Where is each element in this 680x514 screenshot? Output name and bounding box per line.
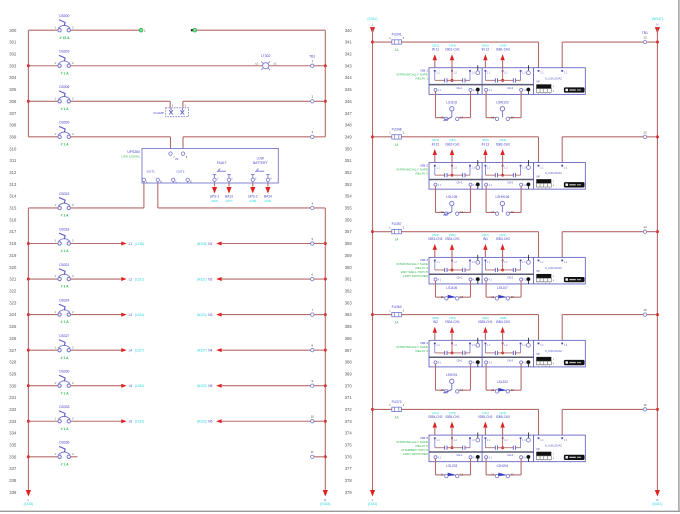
off-page arrow ISB4-CH1 into ISB-4 <box>445 316 460 340</box>
svg-text:(L341): (L341) <box>368 502 378 506</box>
svg-text:CB330: CB330 <box>59 370 69 374</box>
ISB-3 power section internals <box>536 260 584 286</box>
svg-text:# 1 A: # 1 A <box>61 427 70 431</box>
svg-text:CB315: CB315 <box>59 192 69 196</box>
wire row 303 CB303 to lamp <box>70 65 262 67</box>
svg-text:366: 366 <box>345 336 353 341</box>
terminal TB1-6 <box>311 272 314 280</box>
off-page arrow L4 <box>121 348 144 352</box>
svg-text:N_100/120VAC: N_100/120VAC <box>545 77 562 80</box>
svg-text:368: 368 <box>345 360 353 365</box>
wire row 324 terminal to neutral bus <box>314 314 325 316</box>
terminal TB1-1 <box>309 55 315 68</box>
svg-text:325: 325 <box>9 324 17 329</box>
off-page arrow N5 <box>197 384 222 388</box>
node junction neutral bus row 330 <box>324 384 327 387</box>
svg-text:304: 304 <box>9 75 17 80</box>
ISB-5 channel 1 output pins 4.1 4.2 <box>434 453 480 462</box>
circuit breaker CB336 <box>28 441 74 467</box>
svg-text:N1: N1 <box>208 242 212 246</box>
node junction neutral bus row 306 <box>324 100 327 103</box>
svg-text:12: 12 <box>511 473 514 477</box>
svg-text:FU357: FU357 <box>392 222 402 226</box>
terminal TB1-4 <box>311 201 314 209</box>
ISB-4 channel 2 barrier internals <box>485 338 531 355</box>
wire row 318 terminal to neutral bus <box>314 243 325 245</box>
ISB-1 channel 1 barrier internals <box>434 65 480 82</box>
svg-text:376: 376 <box>345 454 353 459</box>
net label top of right neutral bus <box>652 17 663 26</box>
wire row 315 UPS OUT2 to terminal 4 <box>158 207 311 209</box>
svg-text:332: 332 <box>9 407 17 412</box>
limit switch LSH204 <box>486 459 521 478</box>
off-page arrow L3 <box>121 313 144 317</box>
off-page arrow BA13 <box>225 183 233 203</box>
label ISB-2 <box>396 163 428 175</box>
svg-text:13: 13 <box>441 210 444 214</box>
svg-text:369: 369 <box>345 371 353 376</box>
node junction neutral bus row 364 <box>656 313 659 316</box>
off-page arrow IN 12 into ISB-1 <box>482 43 490 67</box>
svg-text:CB309: CB309 <box>59 121 69 125</box>
limit switch LS1102 <box>436 91 471 120</box>
svg-text:362: 362 <box>345 289 353 294</box>
ISB-3 channel 2 barrier internals <box>485 255 531 272</box>
off-page arrow ISB5-CH2 into ISB-5 <box>428 411 443 435</box>
svg-text:LS1102: LS1102 <box>446 100 457 104</box>
off-page arrow IN 11 into ISB-1 <box>432 43 440 67</box>
circuit breaker CB309 <box>28 121 74 147</box>
svg-text:317: 317 <box>9 229 17 234</box>
wire row 327 CB to off-page arrow L4 <box>70 349 121 351</box>
svg-text:12: 12 <box>643 36 647 40</box>
svg-text:LT302: LT302 <box>261 54 270 58</box>
wire row 321 CB to off-page arrow L2 <box>70 278 121 280</box>
svg-text:373: 373 <box>345 419 353 424</box>
svg-text:FU341: FU341 <box>392 33 402 37</box>
svg-text:CB303: CB303 <box>59 50 69 54</box>
svg-text:LSW103: LSW103 <box>496 100 508 104</box>
circuit breaker CB300 <box>28 14 74 40</box>
svg-text:355: 355 <box>345 206 353 211</box>
svg-text:L1: L1 <box>129 242 133 246</box>
svg-text:OUT2: OUT2 <box>176 170 184 174</box>
terminal TB1-2 <box>311 95 314 103</box>
off-page arrow IN 13 into ISB-2 <box>482 138 490 162</box>
off-page arrow L6 <box>121 419 144 423</box>
svg-text:324: 324 <box>9 312 17 317</box>
off-page arrow UPS-1 <box>210 183 220 203</box>
svg-text:316: 316 <box>9 217 17 222</box>
svg-text:348: 348 <box>345 123 353 128</box>
svg-text:349: 349 <box>345 134 353 139</box>
wire row 336 terminal to neutral bus <box>314 456 325 458</box>
svg-text:329: 329 <box>9 371 17 376</box>
off-page arrow L2 <box>121 277 144 281</box>
terminal TB1-11 <box>311 450 315 458</box>
svg-text:MP: MP <box>536 448 540 451</box>
terminal TB1-8 <box>311 344 314 352</box>
svg-text:374: 374 <box>345 431 353 436</box>
terminal TB1-3 <box>311 130 314 138</box>
svg-text:370: 370 <box>345 383 353 388</box>
fuse FU341 <box>373 33 405 52</box>
svg-text:# 1 A: # 1 A <box>61 285 70 289</box>
svg-text:301: 301 <box>9 40 17 45</box>
svg-text:CH-2: CH-2 <box>507 453 514 457</box>
off-page arrow N4 <box>197 348 222 352</box>
svg-text:LIMIT SWITCHES: LIMIT SWITCHES <box>403 452 428 456</box>
wire row 309 terminal to neutral bus <box>314 136 325 138</box>
svg-text:CB306: CB306 <box>59 85 69 89</box>
wire ISB1 pin 1.2 to terminal 12 <box>561 42 563 68</box>
svg-text:CH-1: CH-1 <box>456 453 463 457</box>
limit switch LS1106 <box>436 281 471 300</box>
svg-text:TB1: TB1 <box>309 55 315 59</box>
svg-text:# 1 A: # 1 A <box>61 142 70 146</box>
svg-text:N_100/120VAC: N_100/120VAC <box>545 267 562 270</box>
svg-text:N6: N6 <box>208 420 212 424</box>
svg-text:FU348: FU348 <box>392 127 402 131</box>
svg-text:310: 310 <box>9 146 17 151</box>
svg-text:11: 11 <box>311 450 314 454</box>
off-page arrow N1 <box>197 242 222 246</box>
fuse FU372 <box>373 400 405 419</box>
svg-text:N5: N5 <box>208 384 212 388</box>
svg-text:10: 10 <box>311 415 315 419</box>
limit switch LSL105 <box>436 186 471 215</box>
svg-text:350: 350 <box>345 146 353 151</box>
off-page arrow top of right neutral bus <box>655 27 660 33</box>
svg-text:(346): (346) <box>211 199 218 203</box>
wire terminal 15 to neutral bus <box>647 314 658 316</box>
svg-text:CB300: CB300 <box>59 14 69 18</box>
off-page arrow N3 <box>197 313 222 317</box>
svg-text:364: 364 <box>345 312 353 317</box>
svg-text:345: 345 <box>345 87 353 92</box>
off-page arrow UPS-2 <box>248 183 258 203</box>
svg-text:375: 375 <box>345 443 353 448</box>
limit switch LSL202 <box>486 364 521 393</box>
svg-text:LSL203: LSL203 <box>446 464 457 468</box>
svg-text:IN2: IN2 <box>433 320 438 324</box>
wire left-half neutral bus segment rows 300-309 <box>324 30 326 137</box>
svg-text:N_100/120VAC: N_100/120VAC <box>545 350 562 353</box>
wire fuse FU348 to ISB2 pin 1.1 <box>401 136 538 138</box>
label ISB-1 <box>396 69 428 81</box>
svg-text:352: 352 <box>345 170 353 175</box>
svg-text:LSHH106: LSHH106 <box>495 195 509 199</box>
svg-text:353: 353 <box>345 182 353 187</box>
svg-text:CB324: CB324 <box>59 298 69 302</box>
node junction neutral bus row 327 <box>324 349 327 352</box>
svg-text:IN 12: IN 12 <box>432 142 440 146</box>
svg-text:ISB1-CH2: ISB1-CH2 <box>496 48 511 52</box>
svg-text:# 1 A: # 1 A <box>61 249 70 253</box>
svg-text:N: N <box>656 23 658 27</box>
svg-text:(N315): (N315) <box>320 502 330 506</box>
ISB-2 channel 1 output pins 4.1 4.2 <box>434 181 480 190</box>
svg-text:335: 335 <box>9 443 17 448</box>
svg-text:361: 361 <box>345 277 353 282</box>
svg-text:CH-1: CH-1 <box>456 86 463 90</box>
wire fuse FU357 to ISB3 pin 1.1 <box>401 231 538 233</box>
svg-text:379: 379 <box>345 490 353 495</box>
svg-text:343: 343 <box>345 63 353 68</box>
terminal TB1-12 <box>642 31 648 44</box>
node junction neutral bus row 333 <box>324 420 327 423</box>
ISB-5 channel 2 output pins 4.1 4.2 <box>485 453 531 462</box>
svg-text:(120V): (120V) <box>368 17 378 21</box>
wire row 330 terminal to neutral bus <box>314 385 325 387</box>
off-page arrow bottom of right hot bus <box>370 490 375 497</box>
svg-text:N4: N4 <box>208 348 212 352</box>
terminal TB1-13 <box>643 130 647 138</box>
svg-text:L6: L6 <box>129 420 133 424</box>
wire row 324 CB to off-page arrow L3 <box>70 314 121 316</box>
svg-text:331: 331 <box>9 395 17 400</box>
svg-text:(L333): (L333) <box>135 420 144 424</box>
ISB-4 channel 1 output pins 4.1 4.2 <box>434 358 480 367</box>
node junction left bus row 336 <box>27 455 30 458</box>
svg-text:313: 313 <box>9 182 17 187</box>
net label below right hot bus <box>368 498 378 506</box>
svg-text:# 1 A: # 1 A <box>61 391 70 395</box>
svg-text:CB318: CB318 <box>59 227 69 231</box>
wire row 333 arrow N6 to terminal 10 <box>222 420 311 422</box>
svg-text:# 1 A: # 1 A <box>61 214 70 218</box>
svg-text:ISB3-CH2: ISB3-CH2 <box>428 237 443 241</box>
svg-text:ISB5-CH1: ISB5-CH1 <box>478 320 493 324</box>
svg-text:BATTERY: BATTERY <box>253 161 268 165</box>
svg-text:308: 308 <box>9 123 17 128</box>
node junction neutral bus row 321 <box>324 278 327 281</box>
svg-text:323: 323 <box>9 300 17 305</box>
circuit breaker CB324 <box>28 298 74 324</box>
off-page arrow ISB4-CH2 into ISB-4 <box>496 316 511 340</box>
ISB-1 channel 1 output pins 4.1 4.2 <box>434 86 480 95</box>
circuit breaker CB303 <box>28 50 74 76</box>
svg-text:337: 337 <box>9 466 17 471</box>
svg-text:330: 330 <box>9 383 17 388</box>
wire fuse FU341 to ISB1 pin 1.1 <box>401 41 538 43</box>
off-page arrow IN 12 into ISB-2 <box>432 138 440 162</box>
node junction left bus row 327 <box>27 349 30 352</box>
net label 120V top of right hot bus <box>368 17 378 26</box>
svg-text:(349): (349) <box>264 199 271 203</box>
svg-text:(L321): (L321) <box>135 277 144 281</box>
connector L row 300 <box>139 28 146 32</box>
svg-text:LSH201: LSH201 <box>446 373 458 377</box>
svg-text:339: 339 <box>9 490 17 495</box>
node junction hot bus row 364 <box>371 313 374 316</box>
svg-text:CH-2: CH-2 <box>507 181 514 185</box>
svg-text:12: 12 <box>460 295 463 299</box>
svg-text:321: 321 <box>9 277 17 282</box>
circuit breaker CB333 <box>28 405 74 431</box>
svg-text:LSH204: LSH204 <box>497 464 509 468</box>
svg-text:CH-2: CH-2 <box>507 358 514 362</box>
svg-text:16: 16 <box>643 403 647 407</box>
svg-text:14: 14 <box>460 388 463 392</box>
off-page arrow top of right hot bus <box>370 27 375 33</box>
circuit breaker CB327 <box>28 334 74 360</box>
svg-text:# 1 A: # 1 A <box>61 462 70 466</box>
off-page arrow ISB5-CH1 into ISB-5 <box>445 411 460 435</box>
svg-text:RELAY 1: RELAY 1 <box>416 77 429 81</box>
svg-text:347: 347 <box>345 111 353 116</box>
svg-text:359: 359 <box>345 253 353 258</box>
svg-text:342: 342 <box>345 52 353 57</box>
svg-text:L2: L2 <box>129 277 133 281</box>
off-page arrow L1 <box>121 242 144 246</box>
wire row 315 terminal to neutral bus <box>314 207 325 209</box>
svg-text:ISB2-CH1: ISB2-CH1 <box>445 142 460 146</box>
off-page arrow N2 <box>197 277 222 281</box>
svg-text:IN 12: IN 12 <box>482 48 490 52</box>
svg-text:FU364: FU364 <box>392 305 402 309</box>
svg-text:318: 318 <box>9 241 17 246</box>
node junction left bus row 324 <box>27 313 30 316</box>
node junction hot bus row 357 <box>371 230 374 233</box>
svg-text:(348): (348) <box>249 199 256 203</box>
node junction left bus row 330 <box>27 384 30 387</box>
svg-text:312: 312 <box>9 170 17 175</box>
ISB-5 channel 1 barrier internals <box>434 433 480 450</box>
svg-text:(N324): (N324) <box>197 313 207 317</box>
svg-text:ISB5-CH2: ISB5-CH2 <box>478 415 493 419</box>
off-page arrow IN1 into ISB-3 <box>482 233 489 257</box>
fuse FU364 <box>373 305 405 324</box>
svg-text:ISB1-CH1: ISB1-CH1 <box>445 48 460 52</box>
off-page arrow ISB1-CH1 into ISB-1 <box>445 43 460 67</box>
svg-text:11: 11 <box>491 295 494 299</box>
circuit breaker CB321 <box>28 263 74 289</box>
limit switch LSHH106 <box>486 186 521 215</box>
intrinsically-safe relay ISB-5 outline <box>429 435 585 462</box>
wire left-half neutral bus segment rows 315-339 <box>324 208 326 490</box>
intrinsically-safe relay ISB-3 outline <box>429 257 585 284</box>
svg-text:363: 363 <box>345 300 353 305</box>
node junction neutral bus row 324 <box>324 313 327 316</box>
svg-text:334: 334 <box>9 431 17 436</box>
off-page arrow ISB3-CH1 into ISB-3 <box>445 233 460 257</box>
svg-text:RELAY 2: RELAY 2 <box>416 171 429 175</box>
wire row 309 CB309 down to UPS IN <box>70 136 170 138</box>
svg-text:315: 315 <box>9 206 17 211</box>
ISB-3 channel 2 output pins 4.1 4.2 <box>485 275 531 284</box>
node junction left bus row 306 <box>27 100 30 103</box>
terminal TB1-14 <box>643 225 647 233</box>
off-page arrow ISB3-CH2 into ISB-3 <box>428 233 443 257</box>
off-page arrow IN2 into ISB-4 <box>432 316 439 340</box>
svg-text:UPS-1: UPS-1 <box>210 195 220 199</box>
svg-text:(L315): (L315) <box>24 502 34 506</box>
off-page arrow BA14 <box>264 183 272 203</box>
svg-text:N_100/120VAC: N_100/120VAC <box>545 172 562 175</box>
ISB-1 power section internals <box>536 70 584 96</box>
node junction hot bus row 372 <box>371 408 374 411</box>
svg-text:15: 15 <box>643 308 647 312</box>
ISB-2 channel 2 output pins 4.1 4.2 <box>485 181 531 190</box>
wire row 330 CB to off-page arrow L5 <box>70 385 121 387</box>
svg-text:356: 356 <box>345 217 353 222</box>
node junction neutral bus row 303 <box>324 64 327 67</box>
svg-text:MP: MP <box>536 353 540 356</box>
circuit breaker CB318 <box>28 227 74 253</box>
svg-text:ISB4-CH2: ISB4-CH2 <box>496 320 511 324</box>
wire row 324 arrow N3 to terminal 7 <box>222 314 311 316</box>
svg-text:322: 322 <box>9 289 17 294</box>
svg-text:CH-2: CH-2 <box>507 275 514 279</box>
svg-text:14: 14 <box>460 115 463 119</box>
off-page arrow bottom of left bus <box>26 490 31 497</box>
svg-text:14: 14 <box>643 225 647 229</box>
ISB-1 channel 2 barrier internals <box>485 65 531 82</box>
limit switch LSH201 <box>436 364 471 393</box>
svg-text:RELAY 4: RELAY 4 <box>416 349 429 353</box>
wire left bus L segment rows 300-309 <box>27 30 29 137</box>
svg-text:CH-1: CH-1 <box>456 358 463 362</box>
svg-text:# 1 A: # 1 A <box>61 71 70 75</box>
label ISB-5 <box>396 436 428 456</box>
svg-text:IN1: IN1 <box>483 237 488 241</box>
svg-text:ISB2-CH2: ISB2-CH2 <box>496 142 511 146</box>
svg-text:338: 338 <box>9 478 17 483</box>
svg-text:11: 11 <box>491 473 494 477</box>
svg-text:TB1: TB1 <box>642 31 648 35</box>
node junction hot bus row 341 <box>371 41 374 44</box>
svg-text:(N333): (N333) <box>197 420 207 424</box>
wire fuse FU372 to ISB5 pin 1.1 <box>401 408 538 410</box>
svg-text:(N341): (N341) <box>652 502 662 506</box>
svg-text:ISB3-CH1: ISB3-CH1 <box>445 237 460 241</box>
limit switch LSL203 <box>436 459 471 478</box>
wire right-half neutral bus <box>656 29 658 490</box>
svg-text:UPS 120VAC: UPS 120VAC <box>121 154 140 158</box>
circuit breaker CB306 <box>28 85 74 111</box>
svg-text:IN 11: IN 11 <box>432 48 440 52</box>
svg-text:N3: N3 <box>208 313 212 317</box>
ISB-1 channel 2 output pins 4.1 4.2 <box>485 86 531 95</box>
node junction neutral bus row 372 <box>656 408 659 411</box>
svg-text:LS1107: LS1107 <box>497 286 508 290</box>
svg-text:# 1 A: # 1 A <box>61 320 70 324</box>
svg-text:CB327: CB327 <box>59 334 69 338</box>
wire terminal 14 to neutral bus <box>647 231 658 233</box>
off-page arrow ISB5-CH2 into ISB-5 <box>496 411 511 435</box>
off-page arrow bottom of right neutral bus <box>655 490 660 497</box>
svg-text:IN: IN <box>175 157 178 161</box>
svg-text:360: 360 <box>345 265 353 270</box>
svg-text:354: 354 <box>345 194 353 199</box>
wire row 300 from CB300 to connector L <box>70 29 139 31</box>
node junction left bus row 321 <box>27 278 30 281</box>
svg-text:IN 13: IN 13 <box>482 142 490 146</box>
wire row 330 arrow N5 to terminal 9 <box>222 385 311 387</box>
svg-text:BA14: BA14 <box>264 195 272 199</box>
node junction neutral bus row 336 <box>324 455 327 458</box>
svg-text:302: 302 <box>9 52 17 57</box>
terminal TB1-9 <box>311 379 314 387</box>
ISB-3 channel 1 output pins 4.1 4.2 <box>434 275 480 284</box>
wire row 306 CB306 to relay PLAMP <box>70 100 170 102</box>
svg-text:CH-1: CH-1 <box>456 181 463 185</box>
wire terminal 12 to neutral bus <box>647 41 658 43</box>
net label below right neutral bus <box>652 498 662 506</box>
wire row 333 terminal to neutral bus <box>314 420 325 422</box>
svg-text:377: 377 <box>345 466 353 471</box>
